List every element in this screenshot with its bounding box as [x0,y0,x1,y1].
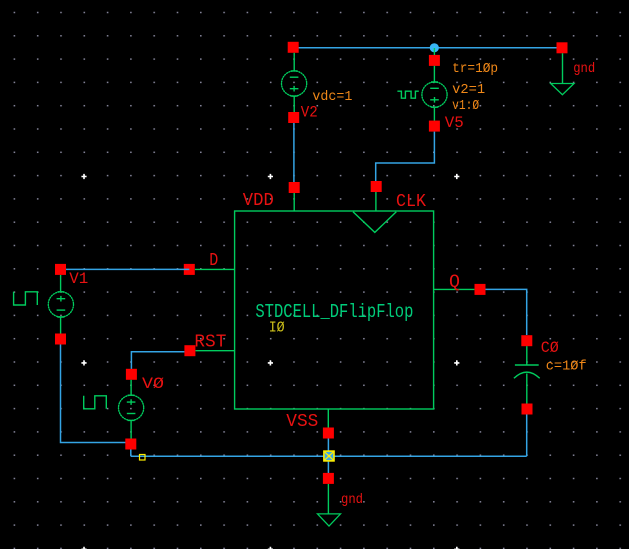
svg-text:tr=1Øp: tr=1Øp [452,61,498,77]
pin RST of I0 [184,345,234,356]
svg-text:V2: V2 [301,103,318,121]
wire top net V2/V5/gnd [293,47,562,49]
wire Q to C0 [486,289,527,335]
pin D of I0 [184,264,235,275]
DFlipFlop instance I0 body [235,211,434,409]
svg-text:vdc=1: vdc=1 [312,89,352,105]
svg-text:VDD: VDD [243,191,274,211]
svg-text:v1:Ø: v1:Ø [452,98,479,114]
pin Q of I0 [434,284,486,295]
net label anchor square [140,455,146,461]
wire bottom net [131,450,527,457]
capacitor C0 [514,335,540,414]
svg-text:VSS: VSS [286,412,318,432]
svg-text:V1: V1 [69,270,88,288]
svg-text:c=1Øf: c=1Øf [546,358,587,374]
wire VSS to ground [327,439,329,474]
svg-text:gnd: gnd [341,492,363,508]
svg-text:IØ: IØ [269,319,285,336]
wire V1 to bottom net [61,345,127,443]
wire V2 to VDD [293,123,295,182]
solder junction on top net [430,43,439,52]
svg-text:V5: V5 [445,114,464,132]
svg-text:RST: RST [194,332,226,352]
voltage source V1 vpulse [14,264,74,345]
svg-text:D: D [209,251,218,271]
ground symbol top right [551,42,574,94]
pin CLK of I0 [371,181,382,212]
svg-text:VØ: VØ [142,375,164,393]
wire RST to V0 [131,352,184,369]
ground symbol bottom [318,473,341,526]
svg-text:v2=1: v2=1 [452,82,485,98]
junction marker solder X [323,450,335,461]
svg-text:CØ: CØ [541,339,559,357]
wire V1 to D [61,268,190,270]
pin VDD of I0 [289,182,300,212]
wire C0 to bottom net [526,415,528,457]
svg-text:CLK: CLK [396,192,426,212]
voltage source V2 vdc [282,42,307,123]
pin VSS of I0 [323,409,334,439]
voltage source V5 vpulse [397,48,447,132]
voltage source V0 vpulse [84,369,144,450]
svg-text:Q: Q [449,273,460,293]
wire V5 to CLK [376,132,435,181]
svg-text:gnd: gnd [573,61,595,77]
